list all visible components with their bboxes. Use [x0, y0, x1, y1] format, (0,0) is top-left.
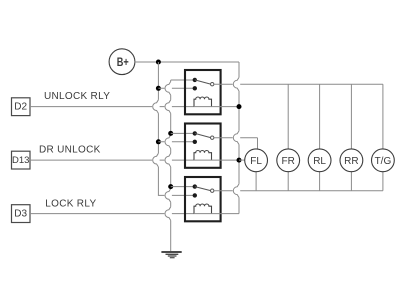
- relay U3 contact 1: [193, 184, 197, 188]
- svg-text:UNLOCK RLY: UNLOCK RLY: [44, 91, 110, 102]
- node line A to relay1 contact2: [156, 86, 161, 91]
- relay U1 contact 2: [193, 86, 197, 90]
- relay U1 contact 1: [193, 78, 197, 82]
- motor FR: [277, 149, 300, 172]
- connector D3: [12, 205, 31, 223]
- wire UNLOCK RLY (D2 to relay1 coil): [30, 106, 194, 108]
- wire top bus drops to motors: [288, 84, 383, 149]
- relay U3 pivot: [211, 189, 214, 192]
- svg-text:RR: RR: [344, 156, 358, 167]
- relay U3 coil: [194, 204, 212, 214]
- wire line B (ground vertical) with hops: [165, 80, 195, 252]
- relay U2 coil: [194, 150, 212, 160]
- battery B+: [109, 49, 135, 75]
- wire bottom stubs from motors: [256, 172, 383, 191]
- wire B+ to bus: [135, 61, 240, 63]
- wire relay U1 coil to bus: [194, 106, 239, 108]
- relay U3 switch blade: [195, 187, 211, 191]
- ground: [161, 252, 181, 258]
- wire FL riser: [257, 138, 259, 149]
- motor FL: [245, 149, 268, 172]
- svg-text:FR: FR: [282, 156, 295, 167]
- node line B to relay3 contact1: [168, 184, 173, 189]
- relay U2 pivot: [211, 136, 214, 139]
- svg-text:D2: D2: [14, 102, 27, 113]
- wire relay U1 output to top bus: [214, 83, 383, 85]
- svg-text:LOCK RLY: LOCK RLY: [45, 198, 96, 209]
- relay U2 contact 1: [193, 131, 197, 135]
- wire LOCK RLY (D3 to relay3 coil): [30, 213, 194, 215]
- wire relay U2 output to FL: [214, 137, 258, 139]
- node B+ / line A junction: [156, 60, 161, 65]
- svg-text:RL: RL: [313, 156, 326, 167]
- wire main bus (B+ right vertical) with hops: [233, 62, 239, 214]
- relay U1 coil: [194, 97, 212, 107]
- relay U1 pivot: [211, 83, 214, 86]
- wire line A to relay2 contact2: [158, 141, 194, 143]
- relay U3 LOCK box: [185, 177, 221, 221]
- wire DR UNLOCK (D13 to relay2 coil): [30, 159, 194, 161]
- wire line A (B+ vertical) with hops: [153, 62, 195, 195]
- connector D2: [12, 98, 31, 116]
- motor RL: [308, 149, 331, 172]
- motor RR: [340, 149, 363, 172]
- wire bus stub to FL: [239, 159, 245, 161]
- svg-text:FL: FL: [250, 156, 262, 167]
- relay U3 contact 2: [193, 193, 197, 197]
- relay U2 contact 2: [193, 140, 197, 144]
- node line B to relay2 contact1: [168, 131, 173, 136]
- relay U1 UNLOCK box: [185, 70, 221, 114]
- wire line B to relay3 contact1: [171, 186, 195, 188]
- node bus / relay U2 coil: [237, 158, 242, 163]
- svg-text:B+: B+: [117, 55, 129, 69]
- svg-text:DR UNLOCK: DR UNLOCK: [39, 145, 101, 156]
- connector D13: [12, 151, 31, 169]
- wire relay U3 coil to bus end: [194, 213, 239, 215]
- relay U2 switch blade: [195, 133, 211, 137]
- relay U1 switch blade: [195, 80, 211, 84]
- motor T/G: [372, 149, 395, 172]
- node line A to relay2 contact2: [156, 139, 161, 144]
- wire relay U3 output to bottom bus: [214, 190, 383, 192]
- svg-text:D13: D13: [12, 155, 29, 166]
- node bus / relay U1 coil: [237, 104, 242, 109]
- svg-text:D3: D3: [14, 209, 27, 220]
- relay U2 DR UNLOCK box: [185, 124, 221, 168]
- wire line B to relay2 contact1: [171, 132, 195, 134]
- svg-text:T/G: T/G: [375, 156, 392, 167]
- wire line A to relay1 contact2: [158, 87, 194, 89]
- wire relay U2 coil to bus: [194, 159, 239, 161]
